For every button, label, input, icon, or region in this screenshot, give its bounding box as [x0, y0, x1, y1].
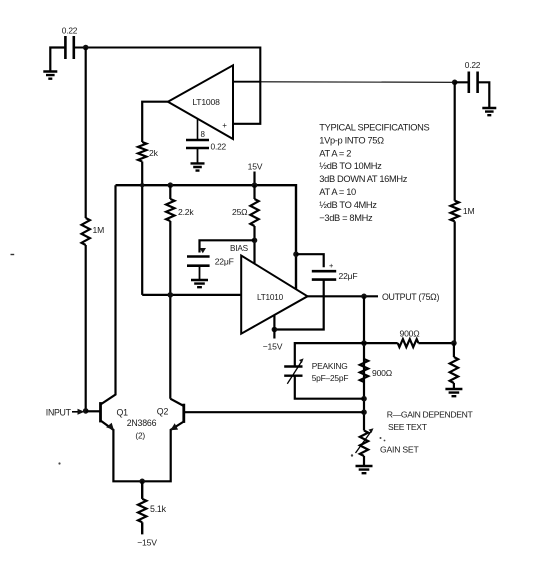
- speck (left of pot): [351, 454, 353, 456]
- speck (near gain pot): [380, 437, 382, 439]
- node V- junction: [272, 327, 278, 333]
- variable arrow (peaking): [287, 361, 301, 383]
- ground G4 (bias cap): [191, 280, 208, 287]
- Q2 emitter arrow: [170, 423, 178, 430]
- svg-text:½dB TO 10MHz: ½dB TO 10MHz: [319, 161, 382, 171]
- wire LT1010 input line: [142, 294, 241, 296]
- svg-text:22μF: 22μF: [339, 271, 358, 281]
- wire LT1008 inverting input stub: [233, 81, 260, 83]
- svg-text:0.22: 0.22: [62, 26, 78, 36]
- svg-text:5.1k: 5.1k: [150, 504, 167, 514]
- resistor to ground (right): [450, 357, 458, 383]
- transistor Q2 base bar: [182, 404, 185, 423]
- svg-text:½dB TO 4MHz: ½dB TO 4MHz: [319, 200, 377, 210]
- wire Q2 base (to gain-set node): [184, 411, 364, 413]
- node peaking bottom junction: [361, 396, 367, 402]
- resistor 900 ohm (vertical): [360, 359, 368, 382]
- wire Q1 emitter: [101, 421, 143, 482]
- svg-text:PEAKING: PEAKING: [312, 361, 348, 371]
- wire peaking bottom: [295, 376, 364, 399]
- wire 25-ohm branch (bias): [253, 185, 255, 263]
- wire horizontal 900 branch: [364, 342, 454, 344]
- resistor 1M (right): [451, 201, 459, 222]
- svg-text:+: +: [222, 121, 227, 130]
- svg-text:15V: 15V: [248, 162, 263, 172]
- op-amp U1 LT1008 triangle: [168, 65, 233, 139]
- svg-text:OUTPUT (75Ω): OUTPUT (75Ω): [382, 292, 439, 302]
- resistor 900 ohm (horizontal): [398, 339, 419, 347]
- node bus-15V junction: [252, 182, 258, 188]
- wire right leg to ground resistor: [453, 343, 455, 389]
- svg-text:−3dB = 8MHz: −3dB = 8MHz: [319, 213, 373, 223]
- polarity arrow (bias cap): [200, 248, 206, 253]
- wire top-left ground stub: [50, 48, 65, 72]
- capacitor 0.22 (LT1008 comp): [186, 140, 209, 148]
- node LT1010 input junction: [168, 292, 174, 298]
- potentiometer GAIN SET: [360, 431, 368, 457]
- wire comp cap to ground: [197, 148, 199, 163]
- node input-hp junction: [83, 45, 89, 51]
- svg-text:Q2: Q2: [157, 407, 169, 417]
- resistor 1M (left): [82, 218, 90, 245]
- svg-text:1M: 1M: [463, 206, 475, 216]
- input arrow: [72, 411, 79, 413]
- wire 15V stem: [253, 172, 255, 186]
- wire Q1 base: [86, 410, 100, 412]
- wire 2.2k branch / Q2 collector line: [169, 185, 171, 399]
- wire supply bus: [116, 185, 297, 289]
- svg-text:3dB DOWN AT 16MHz: 3dB DOWN AT 16MHz: [319, 174, 407, 184]
- ground G3 (top-right cap): [482, 108, 496, 115]
- buffer U2 LT1010 triangle: [241, 256, 307, 334]
- svg-text:Q1: Q1: [117, 408, 129, 418]
- wire V+ tee to 22uF cap: [296, 254, 324, 267]
- wire V- pin: [273, 315, 275, 339]
- node bus-2k crossing: [140, 183, 144, 187]
- svg-text:LT1008: LT1008: [192, 97, 220, 107]
- wire 22uF bottom to V- line: [274, 280, 323, 330]
- svg-text:2k: 2k: [149, 148, 159, 158]
- svg-text:0.22: 0.22: [465, 60, 481, 70]
- ground G5 (right divider): [445, 389, 462, 396]
- node emitter junction: [139, 479, 145, 485]
- wire LT1008 output to 2k: [142, 102, 168, 295]
- svg-text:LT1010: LT1010: [257, 293, 284, 302]
- svg-text:0.22: 0.22: [211, 142, 227, 152]
- wire top rail to LT1008 +in hook: [74, 48, 260, 124]
- svg-text:−15V: −15V: [263, 342, 283, 352]
- svg-text:BIAS: BIAS: [230, 244, 249, 253]
- wire emitter node to 5.1k: [141, 481, 143, 534]
- svg-text:AT A = 10: AT A = 10: [319, 187, 356, 197]
- wire left vertical (input node down): [85, 48, 87, 411]
- node V+ tee: [293, 251, 299, 257]
- svg-text:900Ω: 900Ω: [400, 329, 421, 339]
- svg-text:1Vp-p INTO 75Ω: 1Vp-p INTO 75Ω: [319, 135, 384, 145]
- wire Q2 emitter: [142, 422, 184, 482]
- node input junction: [83, 408, 89, 414]
- wire peaking top: [295, 343, 364, 366]
- svg-text:R—GAIN DEPENDENT: R—GAIN DEPENDENT: [387, 409, 474, 419]
- wire bias to bypass cap: [200, 240, 255, 252]
- wire output down leg: [363, 296, 365, 430]
- svg-text:22μF: 22μF: [215, 257, 234, 267]
- speck (below input): [58, 462, 60, 464]
- capacitor peaking 5pF-25pF (variable): [284, 367, 302, 376]
- capacitor 0.22 (input, top-left): [65, 36, 73, 59]
- wire Q2 collector: [170, 399, 184, 406]
- transistor Q1 base bar: [99, 402, 102, 422]
- wire bias cap to ground: [199, 266, 201, 280]
- node feedback junction (top right): [452, 80, 458, 86]
- node gain-set junction: [361, 409, 367, 415]
- pin 8 stub (LT1008 comp): [197, 119, 199, 140]
- svg-text:900Ω: 900Ω: [372, 368, 393, 378]
- wire right vertical (feedback divider): [454, 82, 456, 343]
- svg-text:INPUT: INPUT: [46, 408, 72, 418]
- wire Q1 collector: [101, 185, 116, 404]
- svg-text:(2): (2): [135, 431, 145, 441]
- wire LT1008 inverting input (thin, to right node): [260, 81, 454, 84]
- Q1 emitter arrow: [106, 423, 114, 430]
- wire top-right cap to ground: [455, 82, 490, 108]
- svg-text:TYPICAL SPECIFICATIONS: TYPICAL SPECIFICATIONS: [319, 123, 429, 133]
- svg-text:2N3866: 2N3866: [127, 418, 157, 428]
- svg-text:AT A = 2: AT A = 2: [319, 148, 351, 158]
- ground G6 (gain set): [356, 466, 373, 473]
- node output junction: [361, 294, 367, 300]
- node bias junction: [252, 238, 258, 244]
- capacitor 22uF (output, right): [312, 271, 336, 279]
- ground G1 (input cap): [43, 72, 57, 79]
- node bus-2.2k junction: [168, 182, 174, 188]
- svg-text:SEE TEXT: SEE TEXT: [388, 422, 428, 432]
- resistor 2k: [138, 142, 146, 162]
- svg-text:GAIN SET: GAIN SET: [380, 445, 419, 455]
- resistor 25 ohm: [250, 199, 258, 226]
- ground G2 (comp cap): [191, 163, 205, 170]
- wire LT1010 output: [308, 295, 379, 297]
- svg-text:1M: 1M: [93, 225, 105, 235]
- resistor 5.1k: [138, 499, 146, 522]
- svg-text:2.2k: 2.2k: [178, 207, 194, 217]
- svg-text:25Ω: 25Ω: [232, 207, 248, 217]
- capacitor 22uF (bias bypass): [187, 257, 210, 266]
- speck (left margin): [11, 254, 15, 256]
- node fb right junction: [451, 340, 457, 346]
- svg-text:−15V: −15V: [137, 538, 157, 548]
- capacitor 0.22 (top right): [469, 72, 478, 94]
- wire pot to ground: [363, 456, 365, 466]
- resistor 2.2k: [166, 199, 174, 221]
- node fb top junction: [361, 340, 367, 346]
- pot arrow (gain set): [356, 432, 372, 454]
- svg-text:5pF–25pF: 5pF–25pF: [312, 373, 349, 383]
